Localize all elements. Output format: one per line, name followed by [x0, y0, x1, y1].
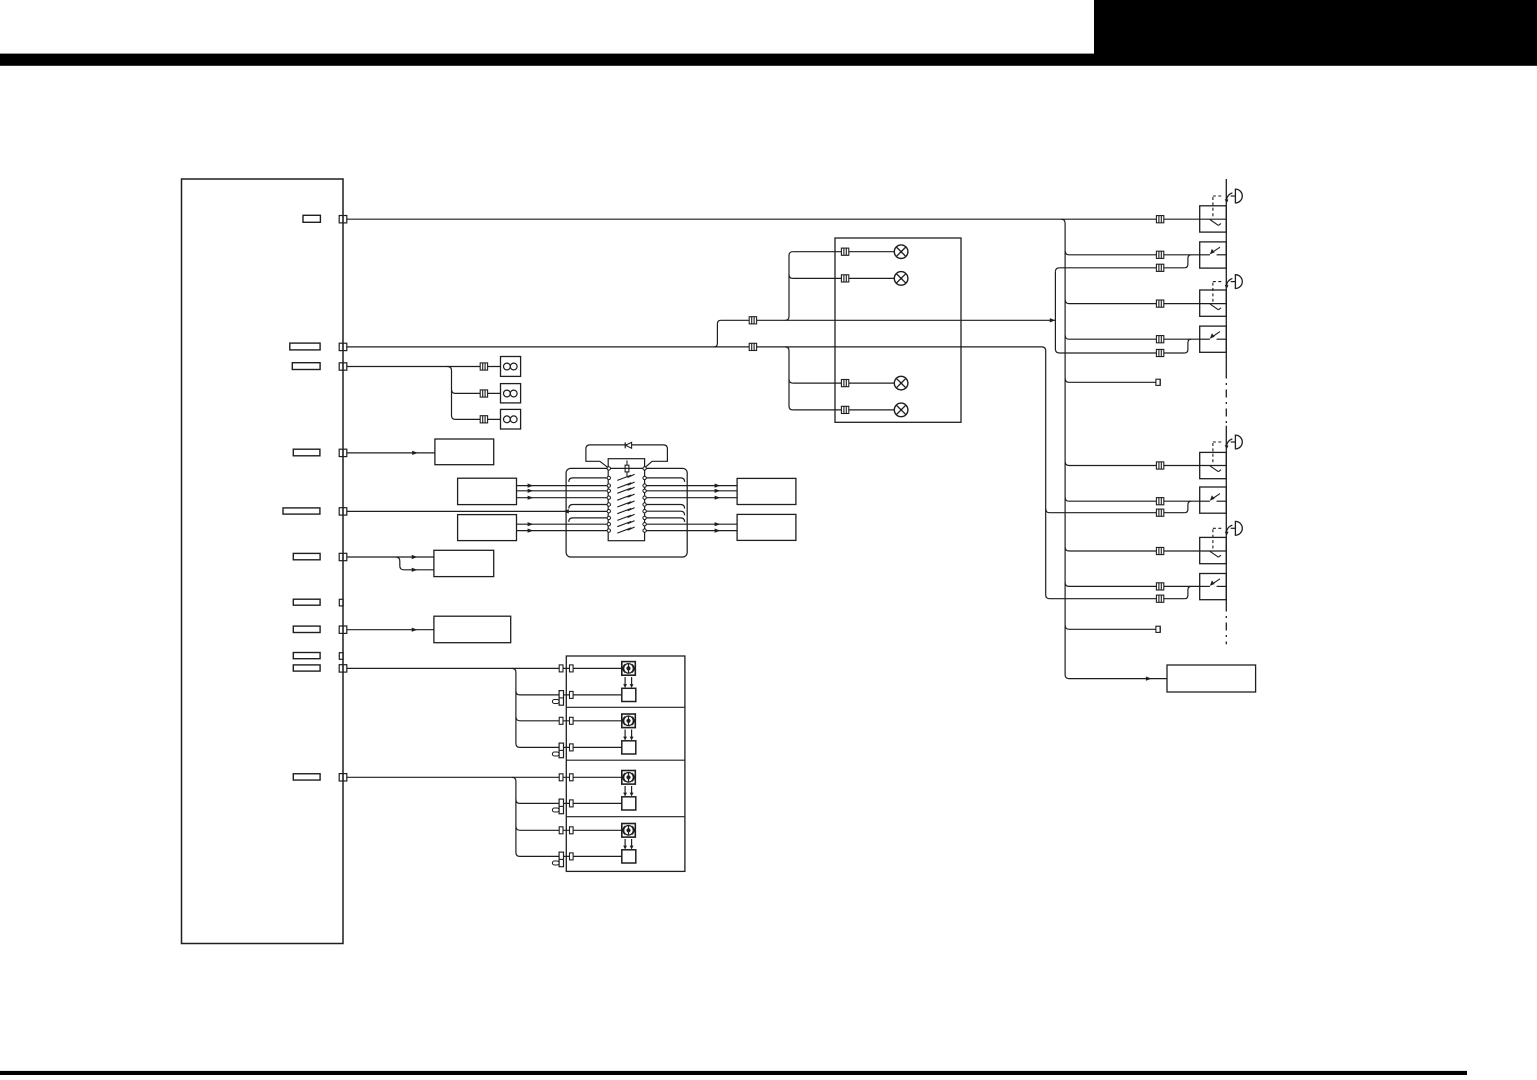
fan wire connector 3 — [559, 774, 573, 781]
wire box B to switch block y485.6 — [517, 485, 567, 487]
connector right wire y586.4 — [1156, 583, 1163, 590]
pin label 6 — [293, 553, 320, 559]
switch blade row 8 — [617, 515, 631, 520]
double-circle unit 2 — [501, 384, 521, 403]
motor wire keyed connector 1 — [552, 691, 573, 706]
wire pin5 to switch block — [347, 510, 607, 512]
wire box C to switch block y524.2 — [517, 523, 567, 525]
fan wire connector 2 — [559, 717, 573, 724]
connector on lower lamp wire — [749, 343, 756, 350]
wire pin6 to box F — [347, 556, 434, 558]
footer rule — [0, 1071, 1467, 1075]
door switch 3a actuator dashes — [1213, 442, 1223, 464]
pin label 11 — [293, 774, 320, 780]
switch row wire y530.6 (inside) — [566, 530, 607, 532]
connector pin 9 — [339, 653, 343, 660]
wire bus1 stub 1 — [1065, 378, 1156, 382]
wire join curve — [1184, 339, 1191, 353]
double-circle unit 1 — [501, 357, 521, 377]
wire pin10 to fan 1 — [347, 667, 622, 669]
key turn arrow 2 — [1225, 278, 1233, 289]
pin label 1 — [303, 215, 320, 222]
flow arrows fan 2 — [623, 730, 627, 741]
wire bus1 to door switch 2b — [1065, 335, 1200, 339]
wire box B to switch block y497.7 — [517, 497, 567, 499]
connector right wire y512.7 — [1156, 509, 1163, 516]
pin label 8 — [293, 626, 320, 632]
flow arrows fan 3 — [623, 786, 627, 797]
stub connector 2 — [1156, 626, 1160, 632]
box BR (bottom right) — [1167, 665, 1256, 692]
door boundary line (solid segments) — [1225, 179, 1227, 371]
motor wire keyed connector 4 — [552, 852, 573, 867]
fan wire connector 4 — [559, 827, 573, 834]
key cylinder symbol 1 — [1231, 189, 1243, 203]
lamp unit box — [835, 238, 961, 422]
main right bus (bus1) — [1061, 219, 1167, 678]
connector for unit 3 — [480, 416, 487, 423]
header bar — [0, 54, 1537, 66]
connector pin 2 — [339, 343, 347, 350]
wire box B to switch block y490.8 — [517, 490, 567, 492]
door switch 2b contacts — [1200, 332, 1227, 340]
connector for unit 1 — [480, 363, 487, 370]
switch blade row 10 — [617, 528, 631, 533]
fan motor symbol 2 — [622, 714, 636, 728]
connector right wire y219.2 — [1156, 216, 1163, 223]
fan unit block — [566, 656, 685, 871]
switch block bail — [586, 445, 668, 468]
wire switch block to box D y490.8 — [687, 490, 737, 492]
switch blade row 6 — [617, 502, 631, 507]
switch blade row 7 — [617, 508, 631, 513]
stub connector 1 — [1156, 379, 1160, 385]
door switch 4b box — [1200, 574, 1227, 600]
title block — [1094, 0, 1537, 54]
switch blade row 3 — [617, 483, 631, 488]
lamp L2 — [894, 272, 908, 286]
key cylinder symbol 3 — [1231, 435, 1243, 449]
motor wire keyed connector 3 — [552, 799, 573, 814]
fan bottom bus — [512, 777, 622, 856]
switch row rail y511 — [646, 511, 684, 515]
connector pin 8 — [339, 626, 347, 633]
wire lamp 4 — [793, 409, 895, 411]
lamp pin connector 3 — [841, 380, 848, 387]
connector right wire y267.8 — [1156, 264, 1163, 271]
door switch 3a box — [1200, 452, 1227, 478]
connector pin 5 — [339, 508, 347, 515]
key turn arrow 4 — [1225, 525, 1233, 536]
wire switch block to box D y497.7 — [687, 497, 737, 499]
wire lamp 1 — [793, 251, 895, 253]
wire bus1 to door switch 1b — [1065, 251, 1200, 255]
wire join curve — [1184, 255, 1191, 268]
wire switch block to box E y530.6 — [687, 530, 737, 532]
fan block divider — [566, 816, 685, 818]
pin label 4 — [293, 449, 320, 456]
door switch 1a actuator dashes — [1213, 196, 1223, 218]
connector for unit 2 — [480, 390, 487, 397]
fan motor symbol 3 — [622, 771, 636, 785]
fuse element — [625, 460, 629, 476]
fan motor symbol 4 — [622, 824, 636, 838]
box A — [435, 439, 494, 465]
box F — [434, 550, 494, 576]
connector pin 10 — [339, 665, 347, 672]
wire branch bus for double-circle units — [448, 367, 501, 420]
switch block inner carrier — [608, 459, 644, 541]
connector pin 1 — [339, 216, 347, 223]
connector right wire y254.8 — [1156, 251, 1163, 258]
connector pin 11 — [339, 774, 347, 781]
switch contacts row 9 — [607, 523, 646, 526]
wire pin11 to fan 3 — [347, 776, 622, 778]
switch contacts row 3 — [607, 484, 646, 487]
switch contacts row 2 — [607, 476, 646, 479]
wire branch to box F second input — [396, 557, 434, 570]
lamp pin connector 2 — [841, 275, 848, 282]
switch contacts row 5 — [607, 496, 646, 499]
connector on upper lamp wire — [749, 317, 756, 324]
wire pin8 to box G — [347, 629, 434, 631]
switch contacts row 1 — [607, 467, 646, 470]
wire branch up to upper lamp bus — [714, 320, 1056, 347]
box D — [737, 478, 796, 504]
door switch 4b contacts — [1200, 579, 1227, 587]
wire join curve — [1184, 501, 1191, 513]
wire lamp 2 — [793, 277, 895, 279]
box E — [737, 514, 796, 540]
fan block divider — [566, 759, 685, 761]
connector pin 6 — [339, 553, 347, 560]
wire box C to switch block y530.6 — [517, 530, 567, 532]
wire pin1 to door switch cluster — [347, 218, 1200, 220]
switch contacts row 4 — [607, 489, 646, 492]
connector pin 4 — [339, 449, 347, 456]
connector right wire y551.0 — [1156, 547, 1163, 554]
motor box 3 — [622, 797, 636, 810]
door switch 4a actuator dashes — [1213, 528, 1223, 549]
upper lamp bus — [785, 252, 793, 321]
wire lamp 3 — [793, 382, 895, 384]
switch contacts row 7 — [607, 510, 646, 513]
pin label 10 — [293, 665, 320, 671]
key turn arrow 3 — [1225, 439, 1233, 450]
door switch 2b box — [1200, 326, 1227, 352]
door switch 4a box — [1200, 537, 1227, 563]
connector pin 7 — [339, 599, 343, 606]
motor box 1 — [622, 688, 636, 701]
door switch 1a box — [1200, 206, 1227, 232]
door switch 3b box — [1200, 487, 1227, 513]
motor box 4 — [622, 850, 636, 863]
door switch 1b box — [1200, 242, 1227, 268]
motor box 2 — [622, 741, 636, 754]
door boundary line (chain segments) — [1225, 371, 1227, 426]
diode in bail — [625, 442, 631, 448]
door switch 3b contacts — [1200, 494, 1227, 502]
connector right wire y303.6 — [1156, 300, 1163, 307]
pin label 5 — [283, 508, 320, 514]
junction mark at bus2 — [1050, 318, 1055, 322]
key cylinder symbol 4 — [1231, 521, 1243, 535]
wire bus1 to door switch 4a — [1065, 547, 1200, 551]
switch contacts row 10 — [607, 529, 646, 532]
lamp L3 — [894, 376, 908, 390]
connector right wire y501.2 — [1156, 498, 1163, 505]
switch row wire y490.8 (inside) — [566, 490, 607, 492]
lamp pin connector 4 — [841, 406, 848, 413]
key cylinder symbol 2 — [1231, 275, 1243, 289]
switch blade row 9 — [617, 521, 631, 526]
flow arrows fan 1 — [623, 677, 627, 688]
pin label 9 — [293, 653, 320, 659]
lamp L4 — [894, 403, 908, 417]
pin label 3 — [292, 363, 320, 370]
switch row wire y524.2 (inside) — [566, 523, 607, 525]
bus2 from upper lamp wire — [1055, 268, 1184, 272]
pin label 7 — [293, 599, 320, 605]
switch blade row 4 — [617, 488, 631, 493]
door switch 2a box — [1200, 290, 1227, 316]
door switch 3a contacts — [1200, 466, 1227, 472]
control unit box — [182, 179, 344, 944]
double-circle unit 3 — [501, 409, 521, 429]
switch contacts row 8 — [607, 516, 646, 519]
fan motor symbol 1 — [622, 662, 636, 676]
wire bus1 to door switch 3b — [1065, 497, 1200, 501]
lower lamp bus — [785, 347, 793, 410]
door switch 1a contacts — [1200, 219, 1227, 225]
connector right wire y353.0 — [1156, 349, 1163, 356]
door switch 1b contacts — [1200, 247, 1227, 255]
connector right wire y339.2 — [1156, 336, 1163, 343]
wire bus1 stub 2 — [1065, 625, 1156, 629]
connector right wire y465.5 — [1156, 462, 1163, 469]
switch contacts row 6 — [607, 503, 646, 506]
combination switch block outline — [566, 468, 687, 557]
switch row wire y485.6 (inside) — [566, 485, 607, 487]
fan block divider — [566, 706, 685, 708]
lamp pin connector 1 — [841, 248, 848, 255]
box B — [458, 478, 517, 504]
motor wire keyed connector 2 — [552, 743, 573, 758]
branch lamp wire2 to door switch 3 bottom — [1046, 509, 1185, 513]
switch blade row 2 — [617, 475, 631, 480]
door switch 2a contacts — [1200, 304, 1227, 310]
wire switch block to box D y485.6 — [687, 485, 737, 487]
wire pin3 to double-circle units — [347, 366, 501, 368]
wire pin4 to box A — [347, 452, 435, 454]
door switch 4a contacts — [1200, 551, 1227, 557]
wire bus1 to door switch 3a — [1065, 462, 1200, 466]
key turn arrow 1 — [1225, 193, 1233, 204]
switch row wire y497.7 (inside) — [566, 497, 607, 499]
wire join curve — [1184, 586, 1191, 598]
switch row rail y517.9 — [569, 518, 607, 522]
wire bus1 to door switch 4b — [1065, 582, 1200, 586]
lamp L1 — [894, 245, 908, 259]
fan top bus — [512, 668, 622, 747]
box C — [458, 515, 517, 541]
connector right wire y598.7 — [1156, 595, 1163, 602]
wire switch block to box E y524.2 — [687, 523, 737, 525]
switch blade row 5 — [617, 495, 631, 500]
door switch 2a actuator dashes — [1213, 282, 1223, 303]
switch row rail y477.9 — [569, 478, 607, 482]
connector pin 3 — [339, 363, 347, 370]
pin label 2 — [290, 343, 320, 350]
flow arrows fan 4 — [623, 839, 627, 850]
wire bus1 to door switch 2a — [1065, 300, 1200, 304]
fan wire connector 1 — [559, 665, 573, 672]
wire pin2 lamp feed — [347, 347, 1185, 599]
switch row rail y504.5 — [569, 505, 607, 509]
box G — [434, 616, 511, 643]
